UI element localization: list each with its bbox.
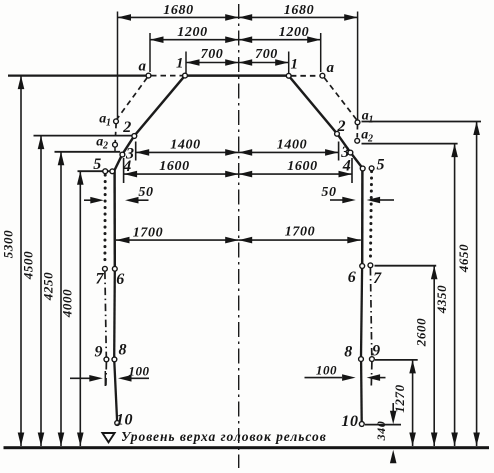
svg-text:2600: 2600	[414, 318, 429, 347]
svg-text:4350: 4350	[434, 285, 449, 314]
svg-text:5: 5	[376, 157, 385, 174]
svg-text:2: 2	[122, 119, 132, 136]
svg-text:8: 8	[118, 342, 127, 359]
svg-text:1200: 1200	[279, 25, 309, 40]
svg-text:700: 700	[255, 47, 278, 62]
svg-text:1700: 1700	[133, 225, 163, 240]
svg-text:1400: 1400	[170, 138, 200, 153]
svg-text:50: 50	[138, 185, 153, 200]
svg-text:6: 6	[116, 271, 125, 288]
svg-text:1: 1	[290, 57, 298, 73]
svg-text:1: 1	[369, 115, 374, 126]
svg-text:2: 2	[336, 118, 346, 135]
svg-text:1700: 1700	[285, 224, 315, 239]
svg-text:700: 700	[201, 47, 224, 62]
svg-text:1600: 1600	[159, 159, 189, 174]
svg-text:4: 4	[342, 158, 352, 175]
svg-text:1600: 1600	[287, 159, 317, 174]
svg-text:5: 5	[93, 156, 102, 173]
svg-text:4: 4	[122, 158, 132, 175]
svg-text:9: 9	[94, 344, 103, 361]
svg-text:1200: 1200	[177, 25, 207, 40]
svg-text:1680: 1680	[284, 3, 314, 18]
svg-text:4250: 4250	[40, 272, 55, 301]
svg-text:1270: 1270	[392, 384, 407, 412]
svg-text:9: 9	[372, 343, 381, 360]
svg-text:100: 100	[316, 363, 337, 378]
svg-text:1: 1	[106, 118, 111, 129]
svg-text:5300: 5300	[0, 230, 15, 258]
svg-text:10: 10	[116, 412, 133, 429]
svg-text:1680: 1680	[163, 3, 193, 18]
svg-text:а: а	[138, 59, 146, 75]
svg-text:4000: 4000	[60, 289, 75, 318]
svg-text:6: 6	[348, 269, 357, 286]
svg-text:340: 340	[374, 421, 388, 442]
svg-text:8: 8	[344, 344, 353, 361]
svg-text:а: а	[326, 60, 334, 76]
svg-text:10: 10	[341, 413, 358, 430]
svg-text:50: 50	[321, 185, 336, 200]
svg-text:100: 100	[128, 363, 149, 378]
svg-text:7: 7	[373, 270, 382, 287]
svg-text:1: 1	[176, 56, 184, 72]
svg-text:1400: 1400	[277, 138, 307, 153]
svg-text:7: 7	[95, 271, 104, 288]
svg-text:4650: 4650	[456, 244, 471, 273]
svg-text:4500: 4500	[20, 251, 35, 280]
svg-text:Уровень верха головок рельсов: Уровень верха головок рельсов	[121, 429, 327, 444]
svg-text:2: 2	[102, 141, 108, 152]
